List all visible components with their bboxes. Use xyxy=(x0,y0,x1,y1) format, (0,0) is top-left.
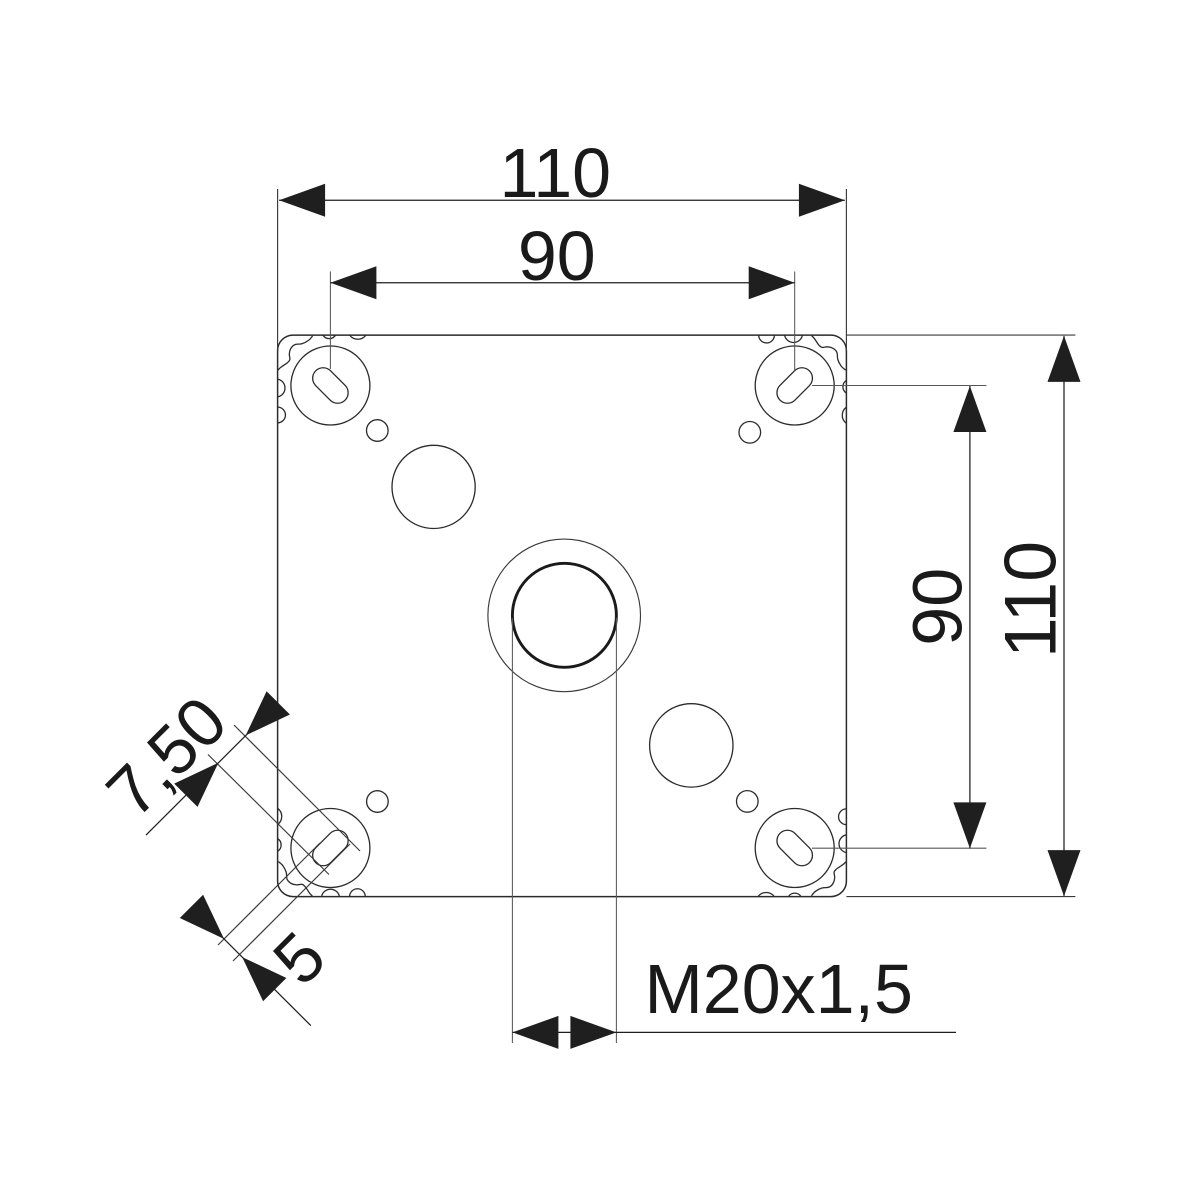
top-left small hole xyxy=(367,420,389,442)
dim M20 arrow right xyxy=(570,1016,616,1049)
dim 90 right arrow bottom xyxy=(953,802,986,848)
top-right screw boss circle xyxy=(755,346,834,425)
bottom-left corner boss xyxy=(278,808,366,896)
dim 90 top extension left xyxy=(329,272,331,370)
top-left corner boss xyxy=(278,335,366,423)
dim 90 top arrow right xyxy=(749,266,795,299)
top-left slot hole xyxy=(308,363,352,407)
dim 90 right extension top xyxy=(812,385,986,387)
dim 90 top line xyxy=(330,282,794,284)
top-left screw boss circle xyxy=(291,346,370,425)
tangent line right xyxy=(615,618,617,1043)
dim 110 right arrow top xyxy=(1048,336,1081,382)
dim 7,50 line xyxy=(146,709,272,835)
bottom-right slot hole xyxy=(773,826,817,870)
bottom-right screw boss circle xyxy=(755,809,834,888)
svg-text:90: 90 xyxy=(899,568,977,646)
dim 110 right line xyxy=(1063,336,1065,896)
dim 110 top arrow left xyxy=(279,184,325,217)
dim 7,50 extension line upper xyxy=(234,725,360,851)
dim 110 top arrow right xyxy=(799,184,845,217)
dim 5 line xyxy=(193,908,311,1026)
dim 110 right arrow bottom xyxy=(1048,850,1081,896)
dim 5 arrow lower xyxy=(242,957,286,1001)
dim 110 right extension top xyxy=(846,334,1075,336)
top-right small hole xyxy=(739,422,761,444)
tangent line left xyxy=(511,618,513,1043)
dim 90 top arrow left xyxy=(330,266,376,299)
bottom-left screw boss circle xyxy=(291,809,370,888)
top-right corner boss xyxy=(759,335,847,423)
dim 110 right extension bottom xyxy=(846,896,1075,898)
bottom-right small hole xyxy=(737,791,759,813)
dim 110 top extension right xyxy=(845,189,847,351)
svg-text:110: 110 xyxy=(989,541,1072,658)
central M20 threaded hole xyxy=(512,563,616,667)
hole upper-left xyxy=(392,445,475,528)
dim 5 extension line lower xyxy=(233,844,350,961)
dim 5 arrow upper xyxy=(180,895,224,939)
dim 7,50 arrow upper xyxy=(246,691,290,735)
top-right slot hole xyxy=(773,363,817,407)
svg-text:M20x1,5: M20x1,5 xyxy=(644,950,912,1028)
bottom-right corner boss xyxy=(758,809,846,897)
dim 90 right extension bottom xyxy=(812,847,986,849)
svg-text:110: 110 xyxy=(499,134,611,212)
dim M20 arrow left xyxy=(512,1016,558,1049)
dim 90 top extension right xyxy=(794,272,796,371)
dim 5 extension line upper xyxy=(218,843,320,945)
dim M20 line xyxy=(512,1031,956,1033)
bottom-left small hole xyxy=(367,791,389,813)
central boss outer circle xyxy=(488,539,641,692)
plate outline xyxy=(278,335,847,897)
dim 7,50 extension line lower xyxy=(208,755,329,875)
dim 7,50 arrow lower xyxy=(174,763,218,807)
hole lower-right xyxy=(650,704,733,787)
dim 110 top extension left xyxy=(277,189,279,351)
dim 110 top line xyxy=(279,199,845,201)
svg-text:90: 90 xyxy=(518,217,596,295)
dim 90 right arrow top xyxy=(953,386,986,432)
dim 90 right line xyxy=(969,386,971,848)
bottom-left slot hole xyxy=(308,826,352,870)
